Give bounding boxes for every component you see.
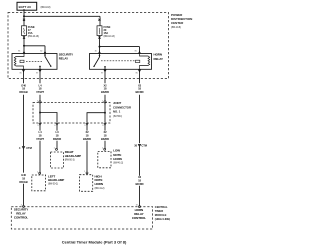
svg-text:G40: G40 [21, 173, 26, 177]
svg-text:9: 9 [84, 125, 86, 127]
svg-text:NO. 1: NO. 1 [113, 110, 121, 114]
svg-text:BATT A0: BATT A0 [19, 5, 32, 9]
svg-text:86: 86 [18, 51, 21, 53]
svg-text:MODULE: MODULE [155, 213, 167, 217]
svg-text:85: 85 [20, 72, 23, 74]
svg-text:30: 30 [134, 144, 137, 148]
svg-text:BK/RD: BK/RD [101, 137, 109, 141]
svg-text:HEADLAMP: HEADLAMP [65, 154, 81, 158]
svg-text:(8W-10-16): (8W-10-16) [28, 35, 39, 38]
svg-text:(8W-50-2): (8W-50-2) [48, 183, 58, 186]
svg-text:RELAY: RELAY [154, 57, 163, 61]
svg-text:(HIGH LINE): (HIGH LINE) [155, 217, 170, 221]
svg-text:CENTER: CENTER [171, 21, 184, 25]
svg-text:87: 87 [101, 72, 104, 74]
svg-text:L3: L3 [56, 130, 60, 134]
svg-text:L4: L4 [39, 130, 43, 134]
svg-text:Central Timer Module (Part 3 O: Central Timer Module (Part 3 Of 8) [62, 240, 127, 245]
svg-text:TIMER: TIMER [155, 209, 163, 213]
svg-text:X3: X3 [138, 83, 142, 87]
svg-text:L4: L4 [39, 83, 43, 87]
svg-text:6: 6 [54, 125, 56, 127]
svg-text:RD/GB: RD/GB [19, 180, 27, 184]
svg-text:CTM: CTM [26, 146, 32, 150]
svg-text:CONTROL: CONTROL [14, 215, 28, 219]
svg-text:BK/RD: BK/RD [135, 90, 143, 94]
svg-text:CENTRAL: CENTRAL [155, 205, 168, 209]
svg-text:VT/WT: VT/WT [36, 90, 44, 94]
svg-text:(8W-10-13): (8W-10-13) [104, 35, 115, 38]
svg-text:4: 4 [19, 146, 21, 150]
svg-text:X2: X2 [103, 130, 107, 134]
svg-text:19: 19 [136, 205, 139, 207]
svg-text:BK/RD: BK/RD [101, 90, 109, 94]
svg-text:HORN: HORN [95, 182, 103, 186]
svg-text:(IN PDC): (IN PDC) [113, 115, 122, 118]
svg-text:(8W-41-2): (8W-41-2) [95, 187, 105, 190]
svg-text:BK/RD: BK/RD [83, 137, 91, 141]
svg-text:X2: X2 [85, 130, 89, 134]
svg-text:18: 18 [39, 134, 42, 138]
svg-text:87: 87 [36, 72, 39, 74]
svg-text:X2: X2 [103, 83, 107, 87]
svg-text:CTM: CTM [141, 144, 147, 148]
svg-text:HORN: HORN [113, 157, 121, 161]
svg-text:30: 30 [40, 51, 43, 53]
svg-text:BK/RD: BK/RD [135, 182, 143, 186]
svg-text:86: 86 [135, 51, 138, 53]
svg-text:X3: X3 [138, 175, 142, 179]
svg-text:18: 18 [22, 176, 25, 180]
svg-text:5: 5 [37, 125, 39, 127]
svg-text:30: 30 [95, 51, 98, 53]
svg-text:G40: G40 [21, 83, 26, 87]
svg-text:RD/GB: RD/GB [19, 90, 27, 94]
svg-text:18: 18 [39, 87, 42, 91]
svg-text:8: 8 [102, 125, 104, 127]
svg-text:(8W-41-2): (8W-41-2) [113, 162, 123, 165]
svg-text:HEADLAMP: HEADLAMP [48, 178, 64, 182]
svg-text:(8W-10-8): (8W-10-8) [41, 6, 51, 9]
svg-text:18: 18 [56, 134, 59, 138]
svg-text:CONTROL: CONTROL [132, 216, 146, 220]
svg-text:VT/WT: VT/WT [36, 137, 44, 141]
svg-text:(8W-50-3): (8W-50-3) [65, 158, 75, 161]
svg-text:RD/OR: RD/OR [53, 137, 61, 141]
svg-text:(8W-10-8): (8W-10-8) [171, 26, 181, 29]
svg-text:RELAY: RELAY [59, 57, 68, 61]
svg-text:85: 85 [136, 72, 139, 74]
